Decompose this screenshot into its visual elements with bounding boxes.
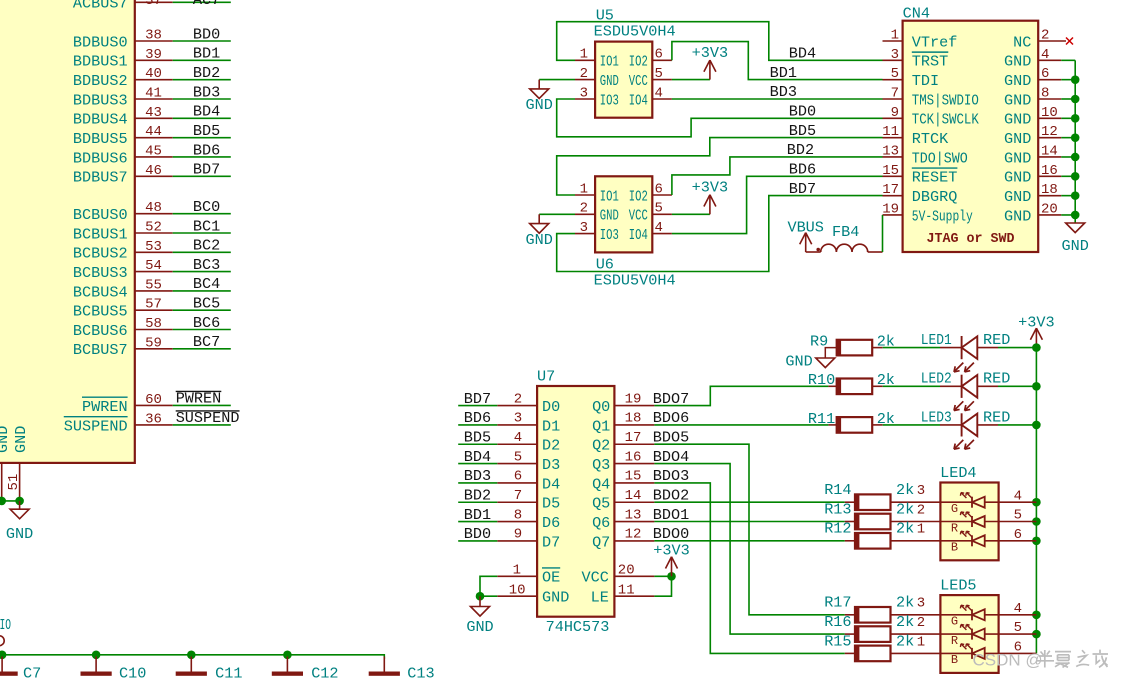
U5 pin 1 IO1 <box>575 47 619 71</box>
U7 pin 15 Q4 / net BDO3 <box>592 467 689 493</box>
wire CN4 GND rail <box>1074 60 1076 222</box>
svg-text:ESDU5V0H4: ESDU5V0H4 <box>594 271 676 289</box>
svg-text:VCC: VCC <box>629 207 648 225</box>
svg-text:52: 52 <box>145 220 162 236</box>
IC pin 48 BCBUS0 / net BC0 <box>73 198 231 224</box>
svg-text:AC7: AC7 <box>193 0 220 9</box>
svg-text:20: 20 <box>1041 201 1058 217</box>
wire net BD4 (U5 IO1 to CN4 pin3) <box>557 22 883 61</box>
net label BD5 <box>789 122 816 140</box>
U6 pin 3 IO3 <box>575 220 619 244</box>
svg-text:U7: U7 <box>537 368 555 386</box>
ground symbol at R9 <box>785 348 836 371</box>
svg-text:4: 4 <box>654 85 662 101</box>
svg-text:GND: GND <box>1004 188 1031 206</box>
resistor R13 2k <box>824 500 940 529</box>
svg-text:5: 5 <box>514 449 522 465</box>
svg-text:GND: GND <box>1004 149 1031 167</box>
svg-text:9: 9 <box>514 527 522 543</box>
svg-text:BDBUS4: BDBUS4 <box>73 111 128 129</box>
svg-text:LED3: LED3 <box>921 408 952 426</box>
svg-text:1: 1 <box>917 634 925 650</box>
U6 pin 1 IO1 <box>575 181 619 205</box>
svg-text:BD2: BD2 <box>464 486 491 504</box>
svg-text:53: 53 <box>145 239 162 255</box>
svg-text:2k: 2k <box>896 594 914 612</box>
svg-text:D1: D1 <box>542 417 560 435</box>
svg-text:ACBUS7: ACBUS7 <box>73 0 128 13</box>
svg-text:GND: GND <box>785 352 812 370</box>
svg-text:7: 7 <box>514 488 522 504</box>
IC pin ACBUS7 (partial, top edge) <box>73 0 231 13</box>
svg-text:2: 2 <box>1041 28 1049 44</box>
svg-text:IO1: IO1 <box>600 187 619 205</box>
svg-text:BD0: BD0 <box>464 525 491 543</box>
ground symbol below CN4 <box>1062 223 1089 255</box>
svg-text:TCK|SWCLK: TCK|SWCLK <box>912 111 980 129</box>
svg-text:D5: D5 <box>542 495 560 513</box>
wire net BD1 (U5 IO2 to CN4 pin5) <box>672 42 883 80</box>
svg-text:5: 5 <box>654 201 662 217</box>
wire U7 OE-GND tie <box>480 576 497 596</box>
svg-text:R17: R17 <box>824 594 851 612</box>
U6 pin 6 IO2 <box>629 181 672 205</box>
svg-text:BD0: BD0 <box>193 25 220 43</box>
LED4 pin 4 G channel <box>940 488 1036 516</box>
wire net BD0 (U5 IO3 to CN4 pin9) <box>557 99 883 137</box>
svg-text:IO2: IO2 <box>629 53 648 71</box>
svg-text:GND: GND <box>526 96 553 114</box>
svg-text:BD7: BD7 <box>193 161 220 179</box>
power +3V3 at LED rail <box>1018 314 1054 348</box>
LED module LED4 body <box>940 464 999 560</box>
svg-text:2k: 2k <box>896 481 914 499</box>
svg-text:ESDU5V0H4: ESDU5V0H4 <box>594 22 676 40</box>
IC pin 52 BCBUS1 / net BC1 <box>73 217 231 243</box>
junction U7 GND <box>476 592 485 601</box>
svg-text:6: 6 <box>1041 66 1049 82</box>
op U6 ESDU5V0H4 body <box>594 176 676 289</box>
svg-text:2k: 2k <box>896 520 914 538</box>
svg-text:BD5: BD5 <box>193 122 220 140</box>
CN4 pin 15 RESET <box>882 163 957 187</box>
U5 pin 5 VCC <box>629 66 672 90</box>
inductor FB4 <box>806 223 883 252</box>
U7 pin 11 LE <box>591 583 655 607</box>
IC pin 59 BCBUS7 / net BC7 <box>73 333 231 359</box>
wire net BDO1 (Q6 to R13) <box>654 521 844 523</box>
svg-text:6: 6 <box>654 181 662 197</box>
svg-text:16: 16 <box>1041 163 1058 179</box>
svg-text:3: 3 <box>917 483 925 499</box>
svg-text:58: 58 <box>145 316 162 332</box>
wire net BD2 (U6 IO2 to CN4 pin13) <box>672 157 883 195</box>
IC pin 54 BCBUS3 / net BC3 <box>73 256 231 282</box>
svg-text:BD1: BD1 <box>770 64 797 82</box>
svg-text:11: 11 <box>882 124 899 140</box>
svg-text:GND: GND <box>1062 237 1089 255</box>
IC pin 46 BDBUS7 / net BD7 <box>73 161 231 187</box>
resistor R12 2k <box>824 520 940 549</box>
svg-text:15: 15 <box>882 163 899 179</box>
U5 pin 2 GND <box>575 66 619 90</box>
wire FB4 to CN4 pin19 <box>882 215 884 252</box>
IC pin 45 BDBUS6 / net BD6 <box>73 141 231 167</box>
partial pin circle (cut at left edge) <box>0 636 4 646</box>
U7 pin 4 D2 / net BD5 <box>458 428 560 454</box>
U7 pin 14 Q5 / net BDO2 <box>592 486 689 512</box>
capacitor C7 <box>0 657 41 678</box>
wire net BDO0 (Q7 to R12) <box>654 540 844 542</box>
svg-text:19: 19 <box>882 201 899 217</box>
U7 pin 17 Q2 / net BDO5 <box>592 428 689 454</box>
svg-text:BD3: BD3 <box>464 467 491 485</box>
svg-text:C13: C13 <box>407 664 434 678</box>
svg-text:BCBUS2: BCBUS2 <box>73 245 128 263</box>
svg-text:BC7: BC7 <box>193 333 220 351</box>
wire net BDO5 (Q2 to R17) <box>654 444 844 615</box>
svg-text:Q2: Q2 <box>592 437 610 455</box>
svg-text:46: 46 <box>145 163 162 179</box>
svg-text:BD1: BD1 <box>464 506 491 524</box>
CN4 pin 9 TCK|SWCLK <box>883 105 980 129</box>
net label BD3 <box>770 83 797 101</box>
IC pin 40 BDBUS2 / net BD2 <box>73 64 231 90</box>
svg-text:7: 7 <box>891 85 899 101</box>
junction U7 VCC <box>667 572 676 581</box>
ground symbol below IC pin 51 <box>6 501 33 543</box>
svg-text:BDBUS5: BDBUS5 <box>73 130 128 148</box>
svg-text:9: 9 <box>891 105 899 121</box>
wire net BD5 (U6 IO1 to CN4 pin11) <box>557 138 883 195</box>
U7 pin 20 VCC <box>582 563 655 587</box>
svg-text:GND: GND <box>0 426 12 453</box>
svg-text:14: 14 <box>1041 143 1058 159</box>
svg-text:44: 44 <box>145 124 162 140</box>
CN4 pin 7 TMS|SWDIO <box>883 85 979 109</box>
IC pin 53 BCBUS2 / net BC2 <box>73 237 231 263</box>
U6 pin 5 VCC <box>629 201 672 225</box>
wire bottom GND/VCC rail <box>0 655 384 659</box>
svg-text:BD4: BD4 <box>193 103 220 121</box>
svg-text:4: 4 <box>654 220 662 236</box>
svg-text:13: 13 <box>625 507 642 523</box>
svg-text:BD4: BD4 <box>464 448 491 466</box>
svg-text:TRST: TRST <box>912 53 948 71</box>
svg-text:IO3: IO3 <box>600 91 619 109</box>
LED1 RED <box>883 331 1037 372</box>
IC pin 58 BCBUS6 / net BC6 <box>73 314 231 340</box>
svg-text:3: 3 <box>891 47 899 63</box>
svg-text:C11: C11 <box>215 664 242 678</box>
U7 pin 2 D0 / net BD7 <box>458 390 560 416</box>
svg-text:48: 48 <box>145 200 162 216</box>
resistor R9 2k <box>810 333 895 356</box>
svg-text:R: R <box>951 634 958 648</box>
svg-text:D4: D4 <box>542 475 560 493</box>
IC pin 55 BCBUS4 / net BC4 <box>73 275 231 301</box>
net label BD7 <box>789 180 816 198</box>
svg-text:GND: GND <box>526 231 553 249</box>
IC pin 36 SUSPEND / net SUSPEND <box>64 409 240 435</box>
svg-text:18: 18 <box>625 411 642 427</box>
CN4 pin 14 GND <box>1004 143 1075 167</box>
svg-text:18: 18 <box>1041 182 1058 198</box>
IC pin 43 BDBUS4 / net BD4 <box>73 103 231 129</box>
svg-text:5: 5 <box>1014 620 1022 636</box>
svg-text:14: 14 <box>625 488 642 504</box>
CN4 pin 10 GND <box>1004 105 1075 129</box>
svg-text:GND: GND <box>1004 91 1031 109</box>
svg-text:+3V3: +3V3 <box>692 179 728 197</box>
U7 pin 19 Q0 / net BDO7 <box>592 390 689 416</box>
svg-text:GND: GND <box>466 618 493 636</box>
svg-text:40: 40 <box>145 66 162 82</box>
svg-text:BC5: BC5 <box>193 295 220 313</box>
svg-text:RED: RED <box>983 370 1010 388</box>
capacitor C10 <box>81 657 147 678</box>
wire net BDO3 (Q4 to R15) <box>654 483 844 654</box>
LED4 pin 6 B channel <box>940 527 1036 555</box>
junctions on LED rail <box>1032 343 1041 638</box>
wire net BD3 (U5 IO4 to CN4 pin7) <box>672 98 883 100</box>
IC bottom GND pin 51 <box>6 426 30 501</box>
CN4 pin 4 GND <box>1004 47 1075 71</box>
power +3V3 at U6 VCC <box>672 179 728 215</box>
svg-text:BD4: BD4 <box>789 45 816 63</box>
capacitor C11 <box>176 657 243 678</box>
wire net BDO4 (Q3 to R16) <box>654 464 844 634</box>
svg-text:2k: 2k <box>896 500 914 518</box>
svg-text:RTCK: RTCK <box>912 130 949 148</box>
svg-text:57: 57 <box>145 297 162 313</box>
svg-text:45: 45 <box>145 143 162 159</box>
connector CN4 body <box>903 5 1039 252</box>
svg-text:C10: C10 <box>119 664 146 678</box>
U7 pin 5 D3 / net BD4 <box>458 448 560 474</box>
partial label IO (cut at left edge) <box>0 616 11 634</box>
LED4 pin 5 R channel <box>940 508 1036 536</box>
resistor R15 2k <box>824 632 940 661</box>
svg-text:R13: R13 <box>824 500 851 518</box>
svg-text:LED2: LED2 <box>921 370 952 388</box>
svg-text:BC2: BC2 <box>193 237 220 255</box>
svg-text:FB4: FB4 <box>832 223 859 241</box>
CN4 pin 3 TRST <box>883 47 949 71</box>
svg-text:54: 54 <box>145 258 162 274</box>
svg-text:Q3: Q3 <box>592 456 610 474</box>
power +3V3 at U5 VCC <box>672 44 728 80</box>
wire +3V3 LED rail <box>1035 348 1037 654</box>
net label BD1 <box>770 64 797 82</box>
svg-text:3: 3 <box>580 220 588 236</box>
wire net BDO6 (Q1 to R11) <box>654 424 828 426</box>
U5 pin 3 IO3 <box>575 85 619 109</box>
IC U1 body (FT2232-style, cut off at left edge) <box>0 0 135 463</box>
CN4 pin 17 DBGRQ <box>882 182 957 206</box>
svg-text:3: 3 <box>917 596 925 612</box>
latch U7 74HC573 body <box>537 368 614 637</box>
svg-text:BCBUS0: BCBUS0 <box>73 206 128 224</box>
svg-text:OE: OE <box>542 569 560 587</box>
svg-text:8: 8 <box>514 507 522 523</box>
svg-text:LE: LE <box>591 589 609 607</box>
svg-text:BD5: BD5 <box>464 428 491 446</box>
svg-text:15: 15 <box>625 469 642 485</box>
svg-text:IO4: IO4 <box>629 226 648 244</box>
wire net BDO7 (Q0 to R10) <box>654 386 828 405</box>
svg-text:R16: R16 <box>824 613 851 631</box>
resistor R17 2k <box>824 594 940 623</box>
svg-text:BD7: BD7 <box>789 180 816 198</box>
LED5 pin 6 B channel <box>940 640 1036 668</box>
svg-text:Q5: Q5 <box>592 495 610 513</box>
svg-text:BD0: BD0 <box>789 103 816 121</box>
U7 pin 3 D1 / net BD6 <box>458 409 560 435</box>
U6 pin 4 IO4 <box>629 220 672 244</box>
svg-text:Q6: Q6 <box>592 514 610 532</box>
svg-text:TMS|SWDIO: TMS|SWDIO <box>912 91 979 109</box>
svg-text:4: 4 <box>514 430 522 446</box>
svg-text:2k: 2k <box>896 613 914 631</box>
svg-text:4: 4 <box>1014 601 1022 617</box>
svg-text:R: R <box>951 521 958 535</box>
resistor R16 2k <box>824 613 940 642</box>
capacitor C12 <box>272 657 339 678</box>
svg-text:51: 51 <box>6 474 22 491</box>
svg-text:D0: D0 <box>542 398 560 416</box>
LED3 RED <box>883 408 1037 449</box>
svg-text:GND: GND <box>1004 111 1031 129</box>
svg-text:R14: R14 <box>824 481 851 499</box>
LED module LED5 body <box>940 577 999 673</box>
svg-text:2: 2 <box>580 66 588 82</box>
svg-text:19: 19 <box>625 391 642 407</box>
ground symbol below U7 <box>466 596 493 636</box>
svg-text:13: 13 <box>882 143 899 159</box>
svg-text:BCBUS4: BCBUS4 <box>73 283 128 301</box>
svg-text:GND: GND <box>542 589 569 607</box>
U7 pin 8 D6 / net BD1 <box>458 506 560 532</box>
net label BD4 <box>789 45 816 63</box>
net label BD6 <box>789 161 816 179</box>
svg-text:16: 16 <box>625 449 642 465</box>
svg-text:20: 20 <box>618 563 635 579</box>
svg-text:BD3: BD3 <box>770 83 797 101</box>
svg-text:GND: GND <box>600 72 619 90</box>
svg-text:BC1: BC1 <box>193 217 220 235</box>
svg-text:74HC573: 74HC573 <box>546 618 610 636</box>
svg-text:Q1: Q1 <box>592 417 610 435</box>
svg-text:BDBUS0: BDBUS0 <box>73 33 128 51</box>
svg-text:37: 37 <box>145 0 162 9</box>
svg-text:39: 39 <box>145 47 162 63</box>
wire U7 VCC-LE tie <box>654 576 671 596</box>
svg-text:BC6: BC6 <box>193 314 220 332</box>
CN4 pin 6 GND <box>1004 66 1075 90</box>
svg-text:BD6: BD6 <box>464 409 491 427</box>
svg-text:BDBUS3: BDBUS3 <box>73 91 128 109</box>
svg-text:GND: GND <box>1004 207 1031 225</box>
CN4 pin 16 GND <box>1004 163 1075 187</box>
svg-text:BD7: BD7 <box>464 390 491 408</box>
net label BD2 <box>787 141 814 159</box>
svg-text:IO3: IO3 <box>600 226 619 244</box>
svg-text:BC3: BC3 <box>193 256 220 274</box>
CN4 pin 20 GND <box>1004 201 1075 225</box>
svg-text:Q7: Q7 <box>592 533 610 551</box>
U5 pin 4 IO4 <box>629 85 672 109</box>
IC pin 60 PWREN / net PWREN <box>82 390 231 416</box>
svg-text:D6: D6 <box>542 514 560 532</box>
svg-text:2: 2 <box>580 201 588 217</box>
wire GND net below IC <box>0 500 20 502</box>
svg-text:6: 6 <box>514 469 522 485</box>
svg-text:BD2: BD2 <box>787 141 814 159</box>
svg-text:RED: RED <box>983 408 1010 426</box>
svg-text:GND: GND <box>600 207 619 225</box>
svg-text:BCBUS1: BCBUS1 <box>73 225 128 243</box>
ground symbol at U6 pin 2 <box>526 214 575 249</box>
CN4 pin 2 NC (no-connect) <box>1013 28 1073 52</box>
svg-text:6: 6 <box>1014 527 1022 543</box>
svg-text:NC: NC <box>1013 33 1031 51</box>
U7 pin 6 D4 / net BD3 <box>458 467 560 493</box>
svg-text:55: 55 <box>145 277 162 293</box>
U7 pin 18 Q1 / net BDO6 <box>592 409 689 435</box>
power VBUS symbol <box>787 218 823 252</box>
svg-text:17: 17 <box>625 430 642 446</box>
U5 pin 6 IO2 <box>629 47 672 71</box>
svg-text:BD5: BD5 <box>789 122 816 140</box>
resistor R14 2k <box>824 481 940 510</box>
capacitor C13 <box>369 657 435 678</box>
svg-text:Q4: Q4 <box>592 475 610 493</box>
svg-text:GND: GND <box>1004 72 1031 90</box>
svg-text:RESET: RESET <box>912 169 958 187</box>
svg-text:G: G <box>951 615 958 629</box>
CN4 pin 8 GND <box>1004 85 1075 109</box>
LED2 RED <box>883 370 1037 411</box>
U7 pin 16 Q3 / net BDO4 <box>592 448 689 474</box>
svg-text:IO: IO <box>0 616 11 634</box>
svg-text:1: 1 <box>917 522 925 538</box>
resistor R11 2k <box>808 410 895 433</box>
svg-text:B: B <box>951 653 958 667</box>
svg-text:1: 1 <box>513 563 521 579</box>
CN4 pin 12 GND <box>1004 124 1075 148</box>
svg-text:TDI: TDI <box>912 72 939 90</box>
svg-text:C7: C7 <box>23 664 41 678</box>
svg-text:+3V3: +3V3 <box>692 44 728 62</box>
svg-text:R12: R12 <box>824 520 851 538</box>
svg-text:36: 36 <box>145 411 162 427</box>
wire net BDO2 (Q5 to R14) <box>654 501 844 503</box>
IC pin 44 BDBUS5 / net BD5 <box>73 122 231 148</box>
IC pin 39 BDBUS1 / net BD1 <box>73 45 231 71</box>
svg-text:38: 38 <box>145 28 162 44</box>
watermark CSDN <box>973 650 1109 670</box>
svg-text:BCBUS5: BCBUS5 <box>73 303 128 321</box>
svg-text:JTAG or SWD: JTAG or SWD <box>927 231 1015 247</box>
svg-text:4: 4 <box>1014 488 1022 504</box>
svg-text:+3V3: +3V3 <box>653 542 689 560</box>
svg-text:VCC: VCC <box>629 72 648 90</box>
svg-text:VCC: VCC <box>582 569 609 587</box>
junctions on CN4 GND rail <box>1071 75 1080 219</box>
svg-text:8: 8 <box>1041 85 1049 101</box>
svg-text:1: 1 <box>891 28 899 44</box>
